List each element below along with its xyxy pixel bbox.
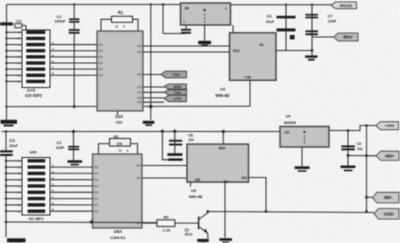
- ground G1 left bus: [1, 120, 18, 124]
- wire U12 to U13 line2: [142, 177, 187, 179]
- ground G6: [68, 160, 83, 163]
- ground G8: [219, 238, 232, 241]
- wire U12 to U13 line1: [142, 165, 187, 167]
- IC U12 CAN transceiver: [93, 154, 143, 228]
- connector J1 DB9 top: [22, 30, 50, 88]
- wire U12 to R3: [142, 222, 157, 224]
- transistor Q1 NPN: [198, 217, 200, 230]
- wire C9 to ground: [347, 156, 349, 166]
- wire R2 left leg: [99, 144, 110, 154]
- DC-DC module B1 top: [181, 3, 231, 25]
- wire C1 branch to gnd return: [73, 34, 75, 107]
- ground G3 under B1: [198, 41, 211, 44]
- port P2: [334, 33, 358, 41]
- wire to port P4: [348, 155, 376, 157]
- wire to C5 branch: [162, 5, 164, 34]
- wire B1 to U11 top: [232, 25, 234, 33]
- pin stub U10 bottom: [117, 111, 119, 116]
- wire rail to U13 top pin: [222, 132, 224, 145]
- port TX1: [161, 71, 187, 78]
- ground G7 mid: [167, 153, 182, 156]
- wire to port P5: [367, 196, 373, 198]
- isolation module U13 WM-4B: [222, 130, 225, 133]
- wire bottom VCC rail: [2, 131, 281, 133]
- wires connector J2 left pins: [6, 160, 22, 162]
- wire left bus vertical: [6, 5, 8, 120]
- wire to port P2: [312, 36, 334, 38]
- port P5 485B: [373, 192, 400, 203]
- wire U13 bottom pin to ground: [224, 182, 226, 238]
- wire U10 to U11 data lines: [143, 45, 230, 47]
- vertical wire right bus: [366, 126, 368, 212]
- capacitor C8 mid: [173, 130, 176, 133]
- wires connector J1 to U10: [50, 44, 97, 46]
- wire long bottom bus to port P6: [208, 212, 374, 213]
- ground G5 bottom left: [7, 238, 26, 242]
- wire U13 right pin down to bus: [249, 178, 267, 212]
- DC-DC module U14 bottom: [280, 127, 329, 148]
- wires connector J1 left pins: [7, 31, 23, 33]
- wire U14 gnd pin: [301, 147, 303, 166]
- pin stub U13 bottom-left: [190, 182, 192, 187]
- wire U10 pin to port: [143, 97, 164, 99]
- port TXD: [164, 90, 187, 95]
- wire R1 left leg: [101, 19, 112, 31]
- port CTS: [164, 95, 187, 102]
- wire top rail right segment: [231, 4, 333, 6]
- wire U10 pin to port: [143, 101, 164, 103]
- ground G9 under U14: [295, 166, 310, 169]
- wire U10 pin to port: [143, 86, 164, 88]
- ground G10: [341, 166, 356, 169]
- ground G4 right: [305, 55, 317, 57]
- IC U10 RS232 transceiver: [97, 31, 143, 111]
- wire GND return bottom half: [6, 221, 157, 224]
- port RXD: [164, 84, 187, 89]
- ground G11 under Q1: [197, 239, 209, 242]
- port P6 GND: [374, 209, 399, 220]
- capacitor C2 plates: [69, 29, 80, 31]
- wire U11 gnd pin down: [249, 80, 251, 106]
- wire top VCC rail left segment: [7, 4, 182, 6]
- wire GND return bottom of U10: [7, 105, 251, 107]
- vertical isolated gnd wire: [150, 5, 152, 120]
- port P4 485A: [376, 151, 399, 160]
- wire R2 right leg: [131, 144, 138, 154]
- wires connector J2 to U12: [50, 166, 93, 168]
- ground G2 mid: [143, 121, 155, 124]
- wire module B1 pin to ground: [204, 25, 206, 41]
- port P3 +5V: [376, 122, 399, 130]
- wire rail right of U14: [329, 126, 376, 131]
- wire R3 to Q1 base: [175, 222, 199, 224]
- wire U10 pin to port: [143, 91, 164, 93]
- pin stubs U10 right side with ports: [143, 74, 161, 76]
- capacitor C5 electrolytic: [181, 29, 191, 31]
- capacitor C9 right: [347, 129, 350, 132]
- node junctions on left bus: [5, 23, 7, 25]
- isolation module U11 WM-4D: [230, 33, 277, 81]
- capacitor C4 top-left with net stub: [0, 22, 13, 25]
- port P1 RS232 top right: [331, 2, 357, 9]
- capacitor C7b branch: [161, 130, 164, 133]
- wire U11 vcc out: [276, 50, 312, 52]
- wire R1 right leg: [133, 19, 139, 31]
